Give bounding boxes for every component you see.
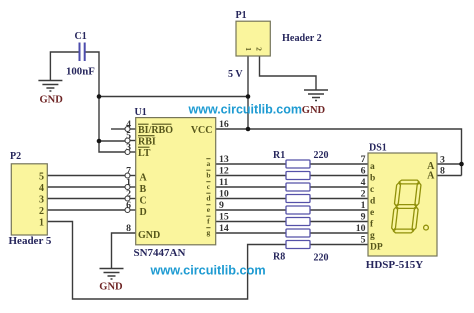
svg-text:220: 220: [314, 150, 329, 161]
svg-text:6: 6: [126, 200, 131, 211]
svg-text:e: e: [370, 208, 374, 218]
svg-text:8: 8: [440, 166, 445, 177]
svg-text:A: A: [140, 172, 148, 183]
svg-text:BI/RBO: BI/RBO: [138, 125, 173, 136]
svg-text:GND: GND: [138, 230, 160, 241]
svg-text:1: 1: [244, 47, 253, 51]
svg-text:5 V: 5 V: [228, 69, 243, 80]
svg-text:10: 10: [219, 189, 229, 200]
svg-text:b: b: [206, 171, 210, 180]
svg-text:4: 4: [39, 183, 44, 194]
svg-text:100nF: 100nF: [66, 65, 95, 77]
svg-text:g: g: [207, 228, 211, 237]
svg-text:C: C: [140, 195, 147, 206]
svg-text:6: 6: [361, 166, 366, 177]
svg-text:5: 5: [126, 131, 131, 142]
svg-text:9: 9: [361, 212, 366, 223]
svg-text:1: 1: [39, 218, 44, 229]
svg-text:Header 2: Header 2: [282, 33, 322, 44]
svg-text:4: 4: [126, 119, 131, 130]
svg-text:14: 14: [219, 223, 229, 234]
svg-text:2: 2: [126, 189, 131, 200]
svg-text:RBI: RBI: [138, 136, 156, 147]
svg-text:5: 5: [39, 172, 44, 183]
svg-text:2: 2: [255, 47, 264, 51]
svg-text:3: 3: [39, 195, 44, 206]
svg-text:R8: R8: [273, 252, 285, 263]
svg-text:10: 10: [356, 223, 366, 234]
svg-text:www.circuitlib.com: www.circuitlib.com: [188, 102, 302, 116]
svg-text:g: g: [370, 231, 375, 241]
svg-text:3: 3: [440, 155, 445, 166]
svg-text:16: 16: [219, 119, 229, 130]
svg-text:a: a: [207, 159, 211, 168]
svg-text:220: 220: [314, 253, 329, 264]
svg-text:12: 12: [219, 166, 229, 177]
svg-text:SN7447AN: SN7447AN: [134, 247, 186, 259]
svg-text:C1: C1: [75, 31, 87, 42]
svg-text:A: A: [427, 171, 435, 182]
svg-text:7: 7: [361, 154, 366, 165]
svg-text:a: a: [370, 162, 375, 172]
svg-text:13: 13: [219, 154, 229, 165]
svg-text:8: 8: [126, 223, 131, 234]
svg-text:c: c: [370, 185, 374, 195]
svg-text:d: d: [370, 197, 376, 207]
svg-text:B: B: [140, 184, 147, 195]
svg-text:15: 15: [219, 212, 229, 223]
svg-text:P2: P2: [10, 151, 21, 162]
svg-text:3: 3: [126, 142, 131, 153]
svg-text:5: 5: [361, 235, 366, 246]
svg-text:GND: GND: [40, 94, 64, 105]
svg-text:11: 11: [219, 177, 228, 188]
svg-text:www.circuitlib.com: www.circuitlib.com: [150, 264, 266, 278]
svg-text:DS1: DS1: [369, 143, 387, 154]
svg-text:7: 7: [126, 166, 131, 177]
svg-text:2: 2: [361, 189, 366, 200]
svg-text:b: b: [370, 174, 375, 184]
svg-text:GND: GND: [99, 282, 123, 293]
svg-text:2: 2: [39, 206, 44, 217]
svg-text:Header 5: Header 5: [9, 235, 52, 247]
svg-text:4: 4: [361, 177, 366, 188]
svg-text:1: 1: [126, 177, 131, 188]
svg-text:1: 1: [361, 200, 366, 211]
svg-text:R1: R1: [273, 150, 285, 161]
svg-text:LT: LT: [138, 148, 151, 159]
svg-text:P1: P1: [236, 10, 247, 21]
svg-text:GND: GND: [302, 105, 326, 116]
svg-text:D: D: [140, 207, 147, 218]
svg-text:DP: DP: [370, 243, 383, 253]
svg-text:9: 9: [219, 200, 224, 211]
svg-text:U1: U1: [135, 107, 147, 118]
svg-text:HDSP-515Y: HDSP-515Y: [366, 259, 424, 271]
svg-text:VCC: VCC: [191, 125, 213, 136]
